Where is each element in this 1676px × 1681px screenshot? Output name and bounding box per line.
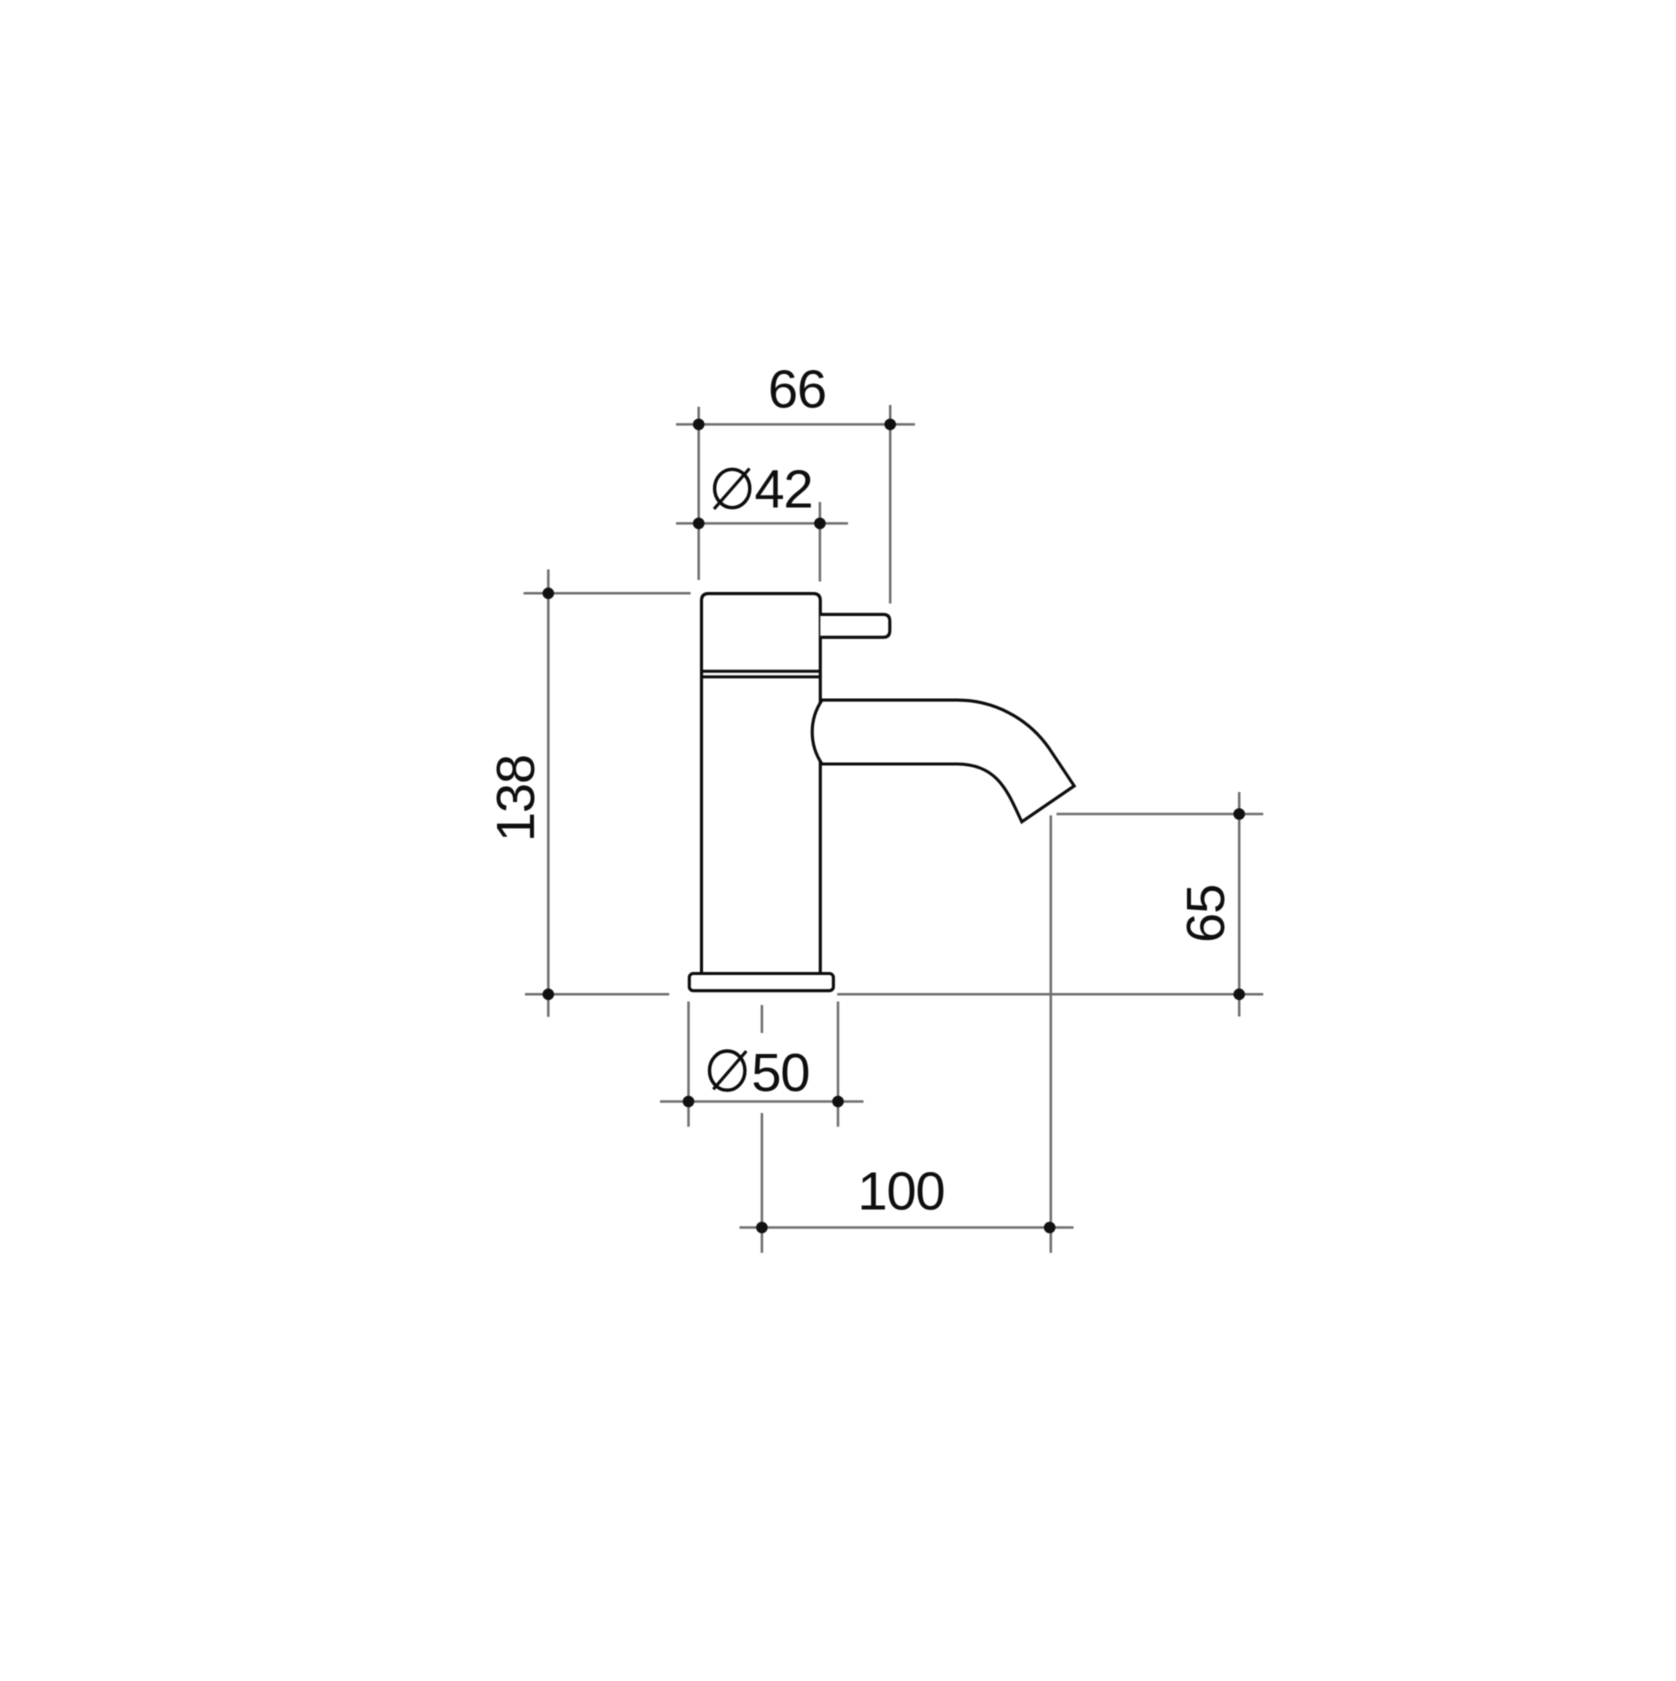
svg-text:100: 100 bbox=[857, 1161, 944, 1221]
dim O50 line bbox=[660, 1100, 864, 1103]
dot O50 left bbox=[683, 1096, 695, 1108]
dim 138 line bbox=[547, 569, 550, 1017]
ext right O42 bbox=[819, 502, 822, 582]
ext drop from spout tip (100 right) bbox=[1050, 815, 1053, 1253]
base flange bbox=[689, 974, 833, 991]
dot O50 right bbox=[832, 1096, 844, 1108]
svg-text:138: 138 bbox=[486, 755, 546, 842]
label O42 bbox=[714, 460, 813, 520]
ext top 65 bbox=[1057, 813, 1264, 816]
dot 100 left bbox=[756, 1222, 768, 1234]
dimension dots bbox=[543, 419, 1245, 1234]
centerline lower segment bbox=[761, 1113, 764, 1253]
dot O42 left bbox=[693, 518, 705, 530]
handle lever bbox=[820, 614, 890, 637]
dim 66 line bbox=[676, 423, 915, 426]
baseline left (138 bottom ext) bbox=[525, 993, 669, 996]
dim O42 line bbox=[676, 522, 848, 525]
svg-text:50: 50 bbox=[751, 1043, 809, 1103]
dot 138 bottom bbox=[543, 989, 555, 1001]
dot 66 left bbox=[693, 419, 705, 431]
svg-text:42: 42 bbox=[754, 460, 812, 520]
ext right 66 bbox=[889, 405, 892, 604]
dot 65 bottom bbox=[1233, 989, 1245, 1001]
svg-text:66: 66 bbox=[768, 360, 826, 420]
ext O50 left bbox=[687, 1002, 690, 1127]
body band line lower bbox=[702, 675, 821, 678]
svg-text:65: 65 bbox=[1176, 885, 1236, 943]
dim 100 line bbox=[740, 1226, 1074, 1229]
dot 138 top bbox=[543, 588, 555, 600]
dot 65 top bbox=[1233, 808, 1245, 820]
dim 65 line bbox=[1238, 792, 1241, 1017]
ext top 138 bbox=[524, 592, 691, 595]
faucet body bbox=[702, 594, 821, 974]
centerline upper segment bbox=[761, 1005, 764, 1033]
ext O50 right bbox=[837, 1002, 840, 1127]
dot O42 right bbox=[814, 518, 826, 530]
label O50 bbox=[710, 1043, 810, 1103]
baseline right (65 bottom ext) bbox=[837, 993, 1263, 996]
ext left shared 66/O42 bbox=[697, 407, 700, 580]
dot 100 right bbox=[1044, 1222, 1056, 1234]
dot 66 right bbox=[884, 419, 896, 431]
body band line upper bbox=[702, 670, 821, 673]
spout bbox=[812, 700, 1074, 822]
